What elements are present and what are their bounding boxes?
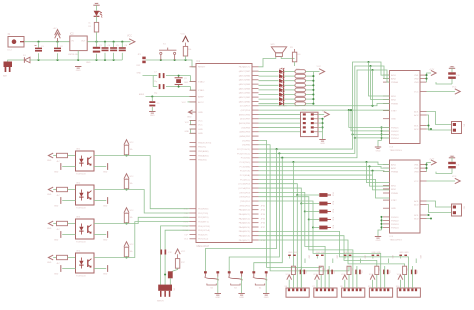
wire net P1 branch xyxy=(349,110,390,127)
supply GND arrow left xyxy=(187,110,196,118)
svg-text:(ADC2)PA2: (ADC2)PA2 xyxy=(239,92,251,95)
wire net PWMBb vertical xyxy=(373,171,390,190)
svg-text:VCC: VCC xyxy=(182,102,187,104)
svg-text:VCC: VCC xyxy=(322,111,327,113)
svg-text:AO1: AO1 xyxy=(414,110,419,113)
svg-text:VCC: VCC xyxy=(313,274,318,276)
svg-text:PC7(TOSC2): PC7(TOSC2) xyxy=(237,149,250,151)
resistor R23 opto input xyxy=(53,153,75,163)
svg-text:PB1(T1): PB1(T1) xyxy=(198,147,206,149)
svg-text:LM78L05Z: LM78L05Z xyxy=(68,54,79,56)
svg-text:TCST1103: TCST1103 xyxy=(76,276,86,278)
svg-text:TCST1103: TCST1103 xyxy=(76,242,86,244)
svg-text:TB6612FNG: TB6612FNG xyxy=(390,239,403,241)
label sensor 2 tops xyxy=(344,252,366,263)
svg-text:TB6612FNG: TB6612FNG xyxy=(390,150,403,152)
svg-text:BO1: BO1 xyxy=(414,215,419,217)
capacitor C15 sensor xyxy=(355,266,362,288)
svg-text:XTAL1: XTAL1 xyxy=(198,89,205,92)
svg-text:PGND1: PGND1 xyxy=(391,217,399,219)
wire reset net xyxy=(146,60,196,67)
svg-text:PB4(SS): PB4(SS) xyxy=(198,160,207,162)
node VCC junctions xyxy=(95,41,123,43)
wire net STBY2 row26 xyxy=(259,179,390,198)
wire net PWMA row21 xyxy=(259,69,390,159)
svg-text:(T1)PB1: (T1)PB1 xyxy=(242,140,251,142)
capacitor C4 xyxy=(102,42,111,60)
svg-text:GND: GND xyxy=(47,262,52,264)
svg-text:BO1: BO1 xyxy=(414,125,419,127)
svg-text:TCST1103: TCST1103 xyxy=(76,174,86,176)
wire nets to sensor led resistors xyxy=(259,184,314,228)
svg-text:PD7(OC2): PD7(OC2) xyxy=(198,239,208,241)
svg-text:PA7(ADC7): PA7(ADC7) xyxy=(239,239,251,242)
svg-text:PC3(TMS): PC3(TMS) xyxy=(240,166,251,168)
wire VIN rail xyxy=(24,41,70,43)
wire xtal left xyxy=(137,73,154,87)
resistor R17 serial xyxy=(170,249,185,273)
svg-text:(RXD)PD0: (RXD)PD0 xyxy=(240,205,251,207)
label sensor 1 tops xyxy=(316,252,338,263)
wire serial txd xyxy=(165,230,189,285)
wire buzzer net xyxy=(259,57,276,67)
svg-text:PGND3: PGND3 xyxy=(391,134,399,136)
svg-text:AO2: AO2 xyxy=(414,203,419,206)
svg-text:GND: GND xyxy=(187,117,192,119)
svg-text:(MOSI)PB5: (MOSI)PB5 xyxy=(239,123,251,125)
svg-text:AIN1: AIN1 xyxy=(391,74,397,77)
connector SV1 pins xyxy=(303,113,318,133)
svg-text:PD2(INT0): PD2(INT0) xyxy=(198,217,209,219)
speaker SP1 buzzer xyxy=(271,44,287,57)
capacitor C11 driver2 xyxy=(436,156,460,174)
node xtal2 j xyxy=(178,75,180,77)
wire net conn1 riser B weave xyxy=(305,212,325,289)
svg-text:BIN1: BIN1 xyxy=(391,185,397,187)
pushbutton S3 xyxy=(228,271,243,289)
node reset junctions xyxy=(160,59,187,61)
svg-text:VCC: VCC xyxy=(181,34,186,36)
wire led mid xyxy=(284,72,295,104)
wire net conn2A waterfall row18 xyxy=(259,145,350,271)
svg-text:GND: GND xyxy=(215,297,220,299)
supply VCC arrow opto 2 xyxy=(124,174,134,179)
svg-text:PGND2: PGND2 xyxy=(391,131,399,133)
ground GND button S4 xyxy=(263,277,269,299)
svg-text:(SS)PB4: (SS)PB4 xyxy=(241,127,250,129)
capacitor C1 xyxy=(35,42,45,60)
svg-text:GND: GND xyxy=(54,206,59,208)
wire opto 2 bottom left xyxy=(54,197,76,207)
capacitor C9 xyxy=(149,95,160,111)
svg-text:VCC: VCC xyxy=(181,251,186,253)
supply VCC arrow opto 1 xyxy=(124,140,134,145)
wire opto 2 bottom right xyxy=(94,197,108,207)
svg-text:(OC1A)PD5: (OC1A)PD5 xyxy=(238,187,250,190)
svg-text:GND: GND xyxy=(391,119,396,121)
svg-text:GND: GND xyxy=(54,274,59,276)
supply arrow opto 1 xyxy=(47,153,53,162)
connector X3 motor1 xyxy=(452,122,465,134)
svg-text:4k7: 4k7 xyxy=(57,229,60,231)
svg-text:PB3(AIN1): PB3(AIN1) xyxy=(198,154,209,157)
wire net conn3 riser A weave xyxy=(259,236,377,267)
svg-text:VM3: VM3 xyxy=(414,172,419,174)
wire net conn0A waterfall xyxy=(292,162,294,266)
wire net PWMBb row25 xyxy=(259,174,373,176)
svg-text:PGND4: PGND4 xyxy=(391,138,399,140)
node xtal1 j xyxy=(178,86,180,88)
svg-text:PGND4: PGND4 xyxy=(391,227,399,229)
svg-text:VCC: VCC xyxy=(198,120,203,122)
wire driver2 out A xyxy=(427,201,452,207)
capacitor C5 xyxy=(110,42,119,60)
svg-text:(ICP)PD6: (ICP)PD6 xyxy=(241,110,251,112)
U3 pin stubs xyxy=(383,165,427,228)
wire net PWMB1 vertical xyxy=(372,70,374,106)
wire net BIN2b branch xyxy=(370,166,390,186)
svg-text:VM3: VM3 xyxy=(414,82,419,84)
wire AREF xyxy=(139,93,196,97)
svg-text:10k: 10k xyxy=(130,217,133,219)
wire gnd stub pins xyxy=(185,120,196,124)
supply +12V arrow driver1 xyxy=(429,69,436,76)
U1 right pin stubs xyxy=(252,67,259,240)
svg-text:100n: 100n xyxy=(360,270,362,274)
wire net conn0 riser B xyxy=(296,195,298,288)
supply VCC arrow driver2 xyxy=(452,176,460,184)
wire VM tie driver2 xyxy=(425,163,431,172)
svg-text:4k7: 4k7 xyxy=(57,161,60,163)
label net names stubs xyxy=(183,205,266,242)
svg-text:4k7: 4k7 xyxy=(57,195,60,197)
svg-text:10k: 10k xyxy=(130,251,133,253)
wire net AIN2b row23 xyxy=(259,165,390,168)
ground GND button S2 xyxy=(215,277,221,299)
svg-text:GND: GND xyxy=(320,143,325,145)
supply VCC arrow sensor 4 xyxy=(397,274,403,288)
wire to XTAL1 xyxy=(179,87,196,91)
wire net conn3 riser B weave xyxy=(313,228,381,289)
svg-text:GND: GND xyxy=(185,131,190,133)
op-amp U2 motor driver IC3 box xyxy=(390,71,421,152)
svg-text:(AIN1)PB3: (AIN1)PB3 xyxy=(240,131,251,134)
svg-text:(ADC5)PA5: (ADC5)PA5 xyxy=(239,79,251,82)
svg-text:STBY: STBY xyxy=(391,200,397,202)
svg-text:GND: GND xyxy=(86,62,91,64)
wire isp nets xyxy=(259,114,301,131)
wire net BIN2 branch xyxy=(371,66,390,99)
connector X10 sensor xyxy=(396,286,421,297)
svg-text:10k: 10k xyxy=(188,49,191,51)
svg-text:GND GND: GND GND xyxy=(344,252,354,254)
svg-text:BIN1: BIN1 xyxy=(391,96,397,98)
wire isp vcc xyxy=(318,113,324,115)
svg-text:(ADC0)PA0: (ADC0)PA0 xyxy=(239,100,251,103)
capacitor C14 sensor xyxy=(328,266,335,288)
connector X6 sensor xyxy=(285,286,310,297)
svg-text:1k: 1k xyxy=(88,23,90,25)
capacitor C17 sensor xyxy=(411,266,418,288)
supply VCC arrow sensor 2 xyxy=(341,274,347,288)
svg-text:VCC: VCC xyxy=(185,122,190,124)
resistor R4-R11 led column xyxy=(295,70,306,106)
svg-text:AO1: AO1 xyxy=(414,200,419,203)
svg-text:PC4(TDO): PC4(TDO) xyxy=(240,162,251,164)
wire net button3 waterfall xyxy=(254,158,282,272)
svg-text:PD5(OC1A): PD5(OC1A) xyxy=(198,229,210,232)
connector X7 sensor xyxy=(312,286,337,297)
wire net conn2 riser B weave xyxy=(309,220,353,289)
resistor R12-R16 stack xyxy=(319,193,333,230)
resistor R3 buzzer xyxy=(290,47,301,66)
svg-text:PC6(TOSC1): PC6(TOSC1) xyxy=(237,153,250,155)
wire net BIN1 branch xyxy=(369,62,390,96)
label sensor 0 tops xyxy=(288,252,310,263)
svg-text:PB2(AIN0): PB2(AIN0) xyxy=(198,150,209,153)
svg-text:PWMB: PWMB xyxy=(391,193,398,195)
svg-text:PA2(ADC2): PA2(ADC2) xyxy=(239,217,251,220)
supply arrow opto 3 xyxy=(47,221,53,230)
svg-text:VM1: VM1 xyxy=(414,165,419,167)
svg-text:10k: 10k xyxy=(130,149,133,151)
svg-text:GND: GND xyxy=(391,208,396,210)
svg-text:AREF: AREF xyxy=(139,93,145,96)
svg-text:(SCK)PB7: (SCK)PB7 xyxy=(240,119,251,121)
svg-text:PA3(ADC3): PA3(ADC3) xyxy=(239,222,251,225)
svg-text:VCC: VCC xyxy=(198,125,203,127)
node opto 4 junction xyxy=(125,256,127,258)
node opto 3 junction xyxy=(125,222,127,224)
wire net BIN1b branch xyxy=(367,162,390,183)
supply VCC arrow sensor 0 xyxy=(286,274,292,288)
crystal Q1 xyxy=(171,76,188,87)
diode D2 serial xyxy=(164,271,173,285)
svg-text:PA7(ADC7): PA7(ADC7) xyxy=(239,66,251,69)
svg-text:AIN2: AIN2 xyxy=(391,78,397,81)
connector X4 motor2 xyxy=(452,204,465,216)
wire net P3 branch xyxy=(351,133,389,135)
svg-text:10k: 10k xyxy=(407,268,409,271)
svg-text:100n: 100n xyxy=(305,270,307,274)
svg-text:GND: GND xyxy=(103,274,108,276)
connector X8 sensor xyxy=(340,286,365,297)
wire gnd stub pins2 xyxy=(185,129,196,133)
svg-text:AIN1: AIN1 xyxy=(391,164,397,167)
resistor R18 sensor pullup xyxy=(291,266,297,288)
svg-text:VCC: VCC xyxy=(130,210,135,212)
svg-text:GND: GND xyxy=(47,160,52,162)
U2 pin labels xyxy=(391,74,419,140)
supply VCC arrow sensor 1 xyxy=(313,274,319,288)
capacitor C10 driver1 xyxy=(436,66,461,84)
capacitor C16 sensor xyxy=(383,266,390,288)
capacitor C2 xyxy=(54,42,64,60)
wire net STBY1 row10 xyxy=(259,109,390,111)
svg-text:PD0(RXD): PD0(RXD) xyxy=(198,209,209,211)
svg-text:VCC: VCC xyxy=(397,274,402,276)
svg-text:BIN2: BIN2 xyxy=(391,189,397,191)
op-amp U3 motor driver IC4 box xyxy=(390,160,421,241)
svg-text:GND: GND xyxy=(376,240,381,242)
wire net conn1A waterfall row17 xyxy=(259,140,322,267)
svg-text:10k: 10k xyxy=(323,268,325,271)
svg-text:PA6(ADC6): PA6(ADC6) xyxy=(239,235,251,238)
wire net AIN2 row20 xyxy=(259,65,390,155)
svg-text:LED BAR: LED BAR xyxy=(278,105,287,108)
wire opto 1 bottom left xyxy=(54,163,76,173)
resistor R1 xyxy=(86,16,99,64)
svg-text:GND: GND xyxy=(198,133,203,135)
svg-text:VCC: VCC xyxy=(130,142,135,144)
resistor R24 opto input xyxy=(53,187,75,197)
ground GND driver1 xyxy=(375,147,381,153)
wire opto 4 bottom right xyxy=(94,265,108,275)
wire net button2 waterfall xyxy=(229,153,279,272)
svg-text:GND GND: GND GND xyxy=(316,252,326,254)
svg-text:VCC: VCC xyxy=(130,244,135,246)
supply VCC arrow main xyxy=(127,36,135,45)
wire net P2 branch xyxy=(350,109,390,131)
supply VCC arrow sensor 3 xyxy=(369,274,375,288)
svg-text:PA5(ADC5): PA5(ADC5) xyxy=(239,230,251,233)
connector X5 servo xyxy=(157,285,175,303)
svg-text:VM2: VM2 xyxy=(414,79,419,81)
svg-text:100n: 100n xyxy=(388,270,390,274)
wire opto 3 bottom right xyxy=(94,231,108,241)
wire gnd rail left xyxy=(8,60,24,62)
svg-text:10k: 10k xyxy=(130,183,133,185)
wire opto net 4 xyxy=(94,222,190,258)
wire driver1 vcc xyxy=(427,91,456,93)
svg-text:PD3(INT1): PD3(INT1) xyxy=(198,222,209,224)
svg-text:GND: GND xyxy=(239,297,244,299)
svg-text:BO2: BO2 xyxy=(414,218,419,220)
svg-text:VCC: VCC xyxy=(414,91,419,93)
svg-text:PD6(ICP): PD6(ICP) xyxy=(198,234,208,236)
wire isp gnd xyxy=(318,118,324,140)
wire net conn4 riser B weave xyxy=(259,231,409,288)
svg-text:PWMA: PWMA xyxy=(391,171,398,174)
resistor R30 opto pullup xyxy=(124,247,132,258)
svg-text:+12V: +12V xyxy=(429,159,435,161)
svg-text:(ADC6)PA6: (ADC6)PA6 xyxy=(239,74,251,77)
U1 right pin labels xyxy=(237,66,251,242)
wire driver2 out B xyxy=(427,205,452,220)
op-amp U1 microcontroller MEGA16 box xyxy=(196,61,252,248)
optocoupler OK4 xyxy=(76,251,95,278)
capacitor C12 serial xyxy=(160,250,172,255)
node gnd junctions xyxy=(37,59,114,61)
U1 left pin labels xyxy=(198,67,212,241)
svg-text:GND: GND xyxy=(54,240,59,242)
wire net PWMB1 row9 xyxy=(259,104,390,107)
svg-text:(OC1B)PD4: (OC1B)PD4 xyxy=(238,184,250,186)
resistor R28 opto pullup xyxy=(124,179,132,190)
LED LED1 xyxy=(94,11,103,19)
svg-text:100n: 100n xyxy=(416,270,418,274)
wire opto 1 bottom right xyxy=(94,163,108,173)
svg-text:VM1: VM1 xyxy=(414,75,419,77)
ground GND driver2 xyxy=(375,237,381,243)
svg-text:PD1(TXD): PD1(TXD) xyxy=(198,213,208,215)
supply +12V arrow driver2 xyxy=(429,159,436,166)
node VIN junctions xyxy=(37,41,58,43)
wire to XTAL2 xyxy=(179,76,196,82)
resistor R21 sensor pullup xyxy=(375,266,381,288)
svg-text:+12V: +12V xyxy=(429,69,435,71)
svg-text:VM2: VM2 xyxy=(414,168,419,170)
wire led rows from U1 xyxy=(259,72,279,104)
svg-text:GND: GND xyxy=(103,206,108,208)
wire net PWMAb row24 xyxy=(259,170,390,172)
supply VCC arrow driver1 xyxy=(452,87,460,95)
svg-text:DCJ: DCJ xyxy=(8,50,12,52)
svg-text:(ADC4)PA4: (ADC4)PA4 xyxy=(239,83,251,86)
pushbutton S1 xyxy=(159,44,176,61)
wire opto 4 bottom left xyxy=(54,265,76,275)
svg-text:(ADC1)PA1: (ADC1)PA1 xyxy=(239,96,251,99)
wire net conn0 riser C xyxy=(300,204,302,289)
svg-text:GND: GND xyxy=(47,194,52,196)
svg-text:GND: GND xyxy=(264,297,269,299)
node opto 2 junction xyxy=(125,188,127,190)
optocoupler OK1 xyxy=(76,149,95,176)
supply VCC arrow reset xyxy=(181,34,189,43)
svg-text:(TXD)PD1: (TXD)PD1 xyxy=(240,201,251,203)
svg-text:BO2: BO2 xyxy=(414,129,419,131)
wire net AIN1b row22 xyxy=(259,161,390,165)
svg-text:OUT: OUT xyxy=(81,41,86,43)
ground GND button S3 xyxy=(238,277,244,299)
svg-text:PB0(XCK/T0): PB0(XCK/T0) xyxy=(198,142,212,144)
capacitor C7 xyxy=(153,72,171,84)
wire serial rxd xyxy=(161,226,190,285)
svg-text:22p: 22p xyxy=(154,93,157,95)
svg-text:PC1(SDA): PC1(SDA) xyxy=(240,174,250,177)
wire driver1 pgnd tie xyxy=(378,126,383,147)
ground GND top of LED1 xyxy=(93,3,99,10)
supply VCC arrow opto 3 xyxy=(124,208,134,213)
svg-text:(ADC7)PA7: (ADC7)PA7 xyxy=(239,70,251,73)
capacitor C8 xyxy=(153,84,171,94)
svg-text:VCC: VCC xyxy=(369,274,374,276)
svg-text:22p: 22p xyxy=(154,81,157,83)
resistor R2 xyxy=(183,43,191,60)
svg-text:PWMB: PWMB xyxy=(391,103,398,105)
svg-text:GND: GND xyxy=(47,228,52,230)
svg-text:(MISO)PB6: (MISO)PB6 xyxy=(239,114,251,116)
wire opto 3 bottom left xyxy=(54,231,76,241)
label led refs xyxy=(278,69,300,108)
wire driver1 out B xyxy=(427,115,452,130)
U3 pin labels xyxy=(391,164,419,230)
svg-text:PC2(TCK): PC2(TCK) xyxy=(240,171,250,173)
svg-text:GND GND: GND GND xyxy=(371,252,381,254)
svg-text:GND: GND xyxy=(198,129,203,131)
wire AVCC stub xyxy=(182,102,196,104)
wire VCC rail xyxy=(87,41,130,43)
svg-text:PGND1: PGND1 xyxy=(391,127,399,129)
wire driver1 out A xyxy=(427,112,452,125)
svg-text:BIN2: BIN2 xyxy=(391,99,397,101)
svg-text:GND: GND xyxy=(76,70,81,72)
svg-text:SERVO: SERVO xyxy=(157,301,164,303)
pushbutton S4 xyxy=(252,271,267,289)
capacitor C3 xyxy=(93,42,103,60)
resistor R29 opto pullup xyxy=(124,213,132,224)
svg-text:PA1(ADC1): PA1(ADC1) xyxy=(239,213,251,216)
